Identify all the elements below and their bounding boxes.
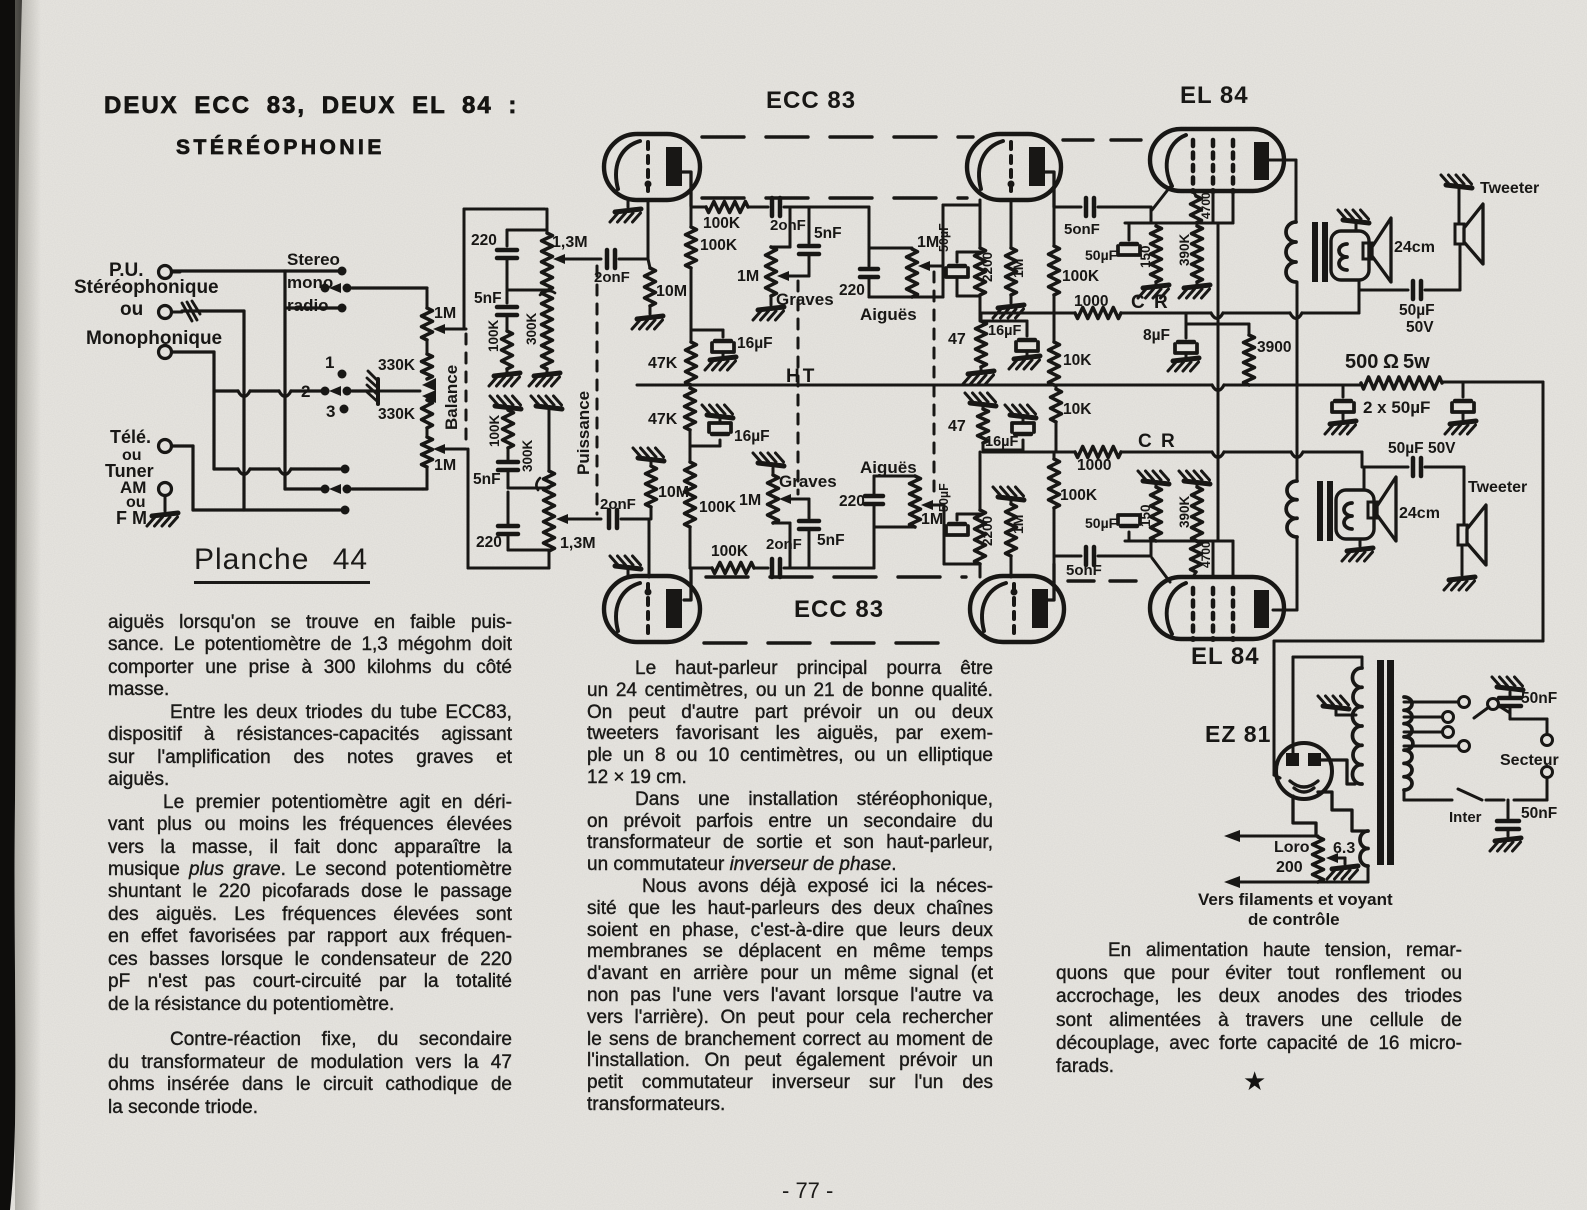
ground speaker lower (1342, 539, 1373, 561)
wire tube4 cathode (979, 564, 982, 577)
node y510 (341, 506, 350, 515)
label EL84 psu (0, 0, 1, 1)
svg-text:5onF: 5onF (1066, 562, 1102, 579)
ground 1.3M upper (529, 369, 560, 386)
potentiometer 1M graves lower (739, 475, 779, 523)
transformer mains winding (1404, 697, 1413, 790)
resistor 2200 upper (975, 248, 996, 295)
ground loro (1327, 866, 1358, 879)
svg-text:50µF: 50µF (937, 483, 951, 512)
wire el84u rail (1125, 222, 1233, 225)
wire B+ bottom (1274, 640, 1543, 643)
aigues gang dashed (933, 272, 936, 500)
svg-text:47K: 47K (648, 355, 678, 372)
wiper arrow aigues upper (918, 261, 943, 271)
svg-text:5nF: 5nF (817, 532, 845, 549)
wire row y391 (215, 391, 371, 397)
node sel1 (338, 370, 347, 379)
dashed envelope bottom row b (704, 641, 950, 644)
label 50nF psu bottom (1521, 805, 1557, 822)
svg-text:Tweeter: Tweeter (1468, 479, 1527, 496)
svg-text:330K: 330K (378, 406, 416, 423)
transformer core lower (1317, 481, 1333, 541)
capacitor 50uF cathode lower (937, 483, 980, 535)
ground 100K lower (490, 396, 521, 409)
svg-text:16µF: 16µF (988, 323, 1021, 339)
wire row y469 (214, 469, 340, 475)
speaker 24cm upper box (1331, 231, 1369, 280)
svg-text:Aiguës: Aiguës (860, 305, 917, 324)
capacitor 50nF psu top (1499, 692, 1521, 712)
svg-text:EZ 81: EZ 81 (1205, 721, 1271, 747)
mains tap 1 (1404, 697, 1470, 708)
capacitor 5nF graves lower (799, 499, 845, 568)
ground graves upper (753, 296, 784, 320)
svg-text:220: 220 (471, 232, 497, 249)
tweeter lower (1458, 505, 1486, 565)
resistor 2200 lower (975, 510, 996, 564)
label AM (120, 478, 146, 497)
resistor 1M grid upper (1006, 248, 1027, 295)
svg-text:1M: 1M (921, 511, 943, 528)
svg-text:EL 84: EL 84 (1191, 643, 1260, 670)
resistor 150 lower (1138, 487, 1162, 541)
capacitor 5nF lower (473, 462, 518, 488)
label 6.3 (1333, 840, 1355, 857)
label Puissance (574, 391, 593, 475)
wire screen vertical (1217, 223, 1220, 541)
resistor 100K tap upper (486, 319, 513, 369)
svg-text:220: 220 (839, 493, 865, 510)
resistor 390K upper (1177, 226, 1203, 282)
ground 390K lower (1179, 471, 1210, 487)
capacitor 20nF input upper (594, 250, 648, 286)
ground 1M grid lower (993, 487, 1024, 504)
svg-text:Stereo: Stereo (287, 250, 340, 269)
wire el84l anode (1273, 537, 1297, 610)
svg-text:1M: 1M (1010, 259, 1026, 278)
svg-text:330K: 330K (378, 357, 416, 374)
wire CR lower right (1121, 452, 1362, 458)
svg-text:24cm: 24cm (1399, 505, 1440, 522)
capacitor 50uF cathode upper (937, 223, 980, 296)
potentiometer Loro 200 (1274, 837, 1324, 882)
transformer core psu (1377, 660, 1394, 865)
wire tube1 cathode (627, 200, 630, 207)
ground tweeter lower (1444, 545, 1475, 590)
svg-text:Loro: Loro (1274, 839, 1310, 856)
ground 50nF psu bottom (1490, 838, 1521, 851)
tube EL84 upper (1150, 129, 1284, 194)
transformer core upper (1312, 222, 1328, 282)
wire tube4 grid (1010, 556, 1013, 577)
resistor 100K plate upper (1049, 207, 1100, 313)
dashed envelope top row b (702, 196, 967, 199)
wire radio stub (287, 306, 338, 309)
graves gang dashed (797, 281, 800, 494)
dashed link ecc4-el84 bottom (1068, 579, 1146, 582)
ground 1.3M lower (531, 396, 562, 471)
wire CR lower left (983, 451, 1075, 454)
label sel 3 (326, 402, 335, 421)
wire bus lower (690, 567, 712, 570)
wire CR upper left (981, 313, 1075, 321)
label de controle (1248, 910, 1340, 929)
node mono pair (321, 283, 352, 293)
label Tweeter upper (1480, 180, 1539, 197)
speaker 24cm lower cone (1368, 477, 1396, 541)
potentiometer 1.3M upper (542, 209, 588, 369)
svg-text:16µF: 16µF (737, 335, 773, 352)
mains tap 4 (1404, 741, 1470, 752)
ground FM terminal (147, 496, 178, 526)
svg-text:5w: 5w (1403, 351, 1430, 373)
node stereo (338, 267, 347, 276)
svg-text:10M: 10M (658, 484, 689, 501)
svg-text:5nF: 5nF (474, 290, 502, 307)
potentiometer 1M aigues lower (874, 476, 943, 528)
node sel3 (340, 405, 349, 414)
wire mains return (1514, 799, 1547, 802)
svg-text:50nF: 50nF (1521, 690, 1557, 707)
wire 16uF tap lower (690, 440, 720, 446)
resistor 47K lower (648, 388, 696, 462)
label Tele. (110, 427, 151, 447)
wire 300K tap low (508, 487, 549, 490)
tube ECC83 triode B (967, 134, 1061, 200)
svg-text:300K: 300K (520, 439, 535, 472)
svg-text:2onF: 2onF (770, 217, 806, 234)
wire B+ right (1442, 382, 1543, 641)
label 50uF 50V lower (1388, 440, 1456, 457)
svg-text:ECC 83: ECC 83 (766, 87, 856, 114)
node sel2 pair (321, 386, 352, 396)
capacitor 16uF lower (709, 423, 770, 445)
ground 1M grid upper (993, 295, 1024, 318)
label sel 1 (325, 353, 334, 372)
svg-text:100K: 100K (486, 319, 501, 352)
transformer HV winding (1352, 657, 1362, 784)
svg-text:100K: 100K (1062, 268, 1100, 285)
svg-text:200: 200 (1276, 859, 1303, 876)
svg-text:220: 220 (476, 534, 502, 551)
wire arrow feed 1 (1224, 830, 1318, 842)
svg-text:2200: 2200 (980, 252, 995, 282)
resistor 100K vert upper (686, 227, 738, 268)
svg-text:Graves: Graves (779, 472, 837, 491)
wiper arrow balance lower (433, 444, 466, 454)
wire 2200 to 47 (979, 295, 982, 321)
node sel pair low (321, 484, 352, 494)
wire row y489 (285, 487, 322, 490)
label 300K upper (524, 291, 555, 345)
label ou 2 (122, 447, 142, 464)
wire 16uF2 tap (981, 321, 1027, 336)
tube EL84 lower (1150, 577, 1284, 642)
wire tube3 cathode (627, 570, 630, 577)
label Graves upper (776, 290, 834, 309)
tube ECC83 triode C (604, 576, 700, 642)
wire 16uF tap upper (691, 330, 723, 337)
ground speaker upper (1338, 210, 1369, 231)
wiper arrow balance upper (433, 324, 466, 334)
ground 47 lower (965, 393, 996, 409)
wire filament left (1293, 796, 1316, 836)
svg-text:2 x 50µF: 2 x 50µF (1363, 398, 1430, 417)
resistor 3900 upper (1244, 324, 1292, 385)
svg-text:1M: 1M (739, 492, 761, 509)
svg-text:3900: 3900 (1257, 339, 1291, 356)
tube ECC83 triode D (970, 576, 1064, 642)
svg-text:100K: 100K (487, 414, 502, 447)
resistor 330K upper (378, 340, 433, 379)
potentiometer 1M graves upper (737, 247, 777, 296)
wire v285 (283, 271, 286, 489)
resistor 10K upper (1049, 313, 1093, 385)
resistor 10K lower (1051, 385, 1093, 452)
label EL84 bottom (1191, 643, 1260, 670)
label Secteur (1500, 752, 1559, 769)
terminal mono input (159, 301, 201, 321)
svg-text:1,3M: 1,3M (552, 234, 588, 251)
capacitor 20nF series lower (766, 536, 869, 577)
resistor 1M grid lower (1006, 504, 1027, 556)
svg-text:Télé.: Télé. (110, 427, 151, 447)
wiper arrow 1.3M lower (556, 514, 601, 524)
speaker 24cm lower box (1336, 490, 1374, 539)
svg-text:50nF: 50nF (1521, 805, 1557, 822)
label 300K lower (520, 439, 540, 490)
balance center tap arrows (370, 378, 436, 403)
terminal input 3 (159, 346, 183, 359)
svg-text:100K: 100K (700, 237, 738, 254)
svg-text:47: 47 (948, 331, 966, 348)
wire anode node upper (1054, 206, 1081, 209)
svg-text:4700: 4700 (1199, 192, 1213, 219)
capacitor 50uF el84 upper (1085, 223, 1140, 263)
svg-text:2onF: 2onF (766, 536, 802, 553)
ground 100K upper (489, 369, 520, 386)
switch Inter (1404, 789, 1504, 800)
wire v944 lower (944, 505, 980, 564)
wire secondary bottom upper (1359, 280, 1408, 313)
wiper arrow graves lower (779, 494, 809, 504)
svg-text:de contrôle: de contrôle (1248, 910, 1340, 929)
ground 8uF upper (1168, 353, 1199, 371)
svg-text:ou: ou (120, 299, 143, 320)
svg-text:Stéréophonique: Stéréophonique (74, 277, 219, 298)
ground 2x50uF right (1445, 421, 1476, 434)
puissance gang dashed link (596, 266, 599, 514)
wiper arrow loro (1326, 853, 1345, 864)
svg-text:10M: 10M (656, 283, 687, 300)
svg-text:Ω: Ω (1383, 351, 1399, 373)
svg-text:ECC 83: ECC 83 (794, 596, 884, 623)
resistor 100K plate lower (1049, 452, 1098, 556)
svg-text:390K: 390K (1177, 233, 1192, 266)
wire tube2 anode (1043, 172, 1054, 207)
resistor 100K series upper (691, 202, 768, 233)
ground 47 upper (963, 367, 994, 384)
heater winding 6.3 (1360, 831, 1368, 866)
wire mono row to balance (352, 286, 427, 289)
ground 390K upper (1179, 282, 1210, 298)
wire tweeter lower (1463, 467, 1466, 525)
resistor 390K lower (1177, 487, 1203, 541)
svg-text:100K: 100K (699, 499, 737, 516)
svg-text:100K: 100K (703, 215, 741, 232)
svg-text:Graves: Graves (776, 290, 834, 309)
wiper arrow graves upper (777, 271, 809, 281)
wire el84u pins (1213, 191, 1233, 223)
ground 150 lower (1138, 471, 1169, 487)
capacitor 50nF coupling upper (1064, 198, 1151, 238)
book gutter black strip (0, 0, 22, 1210)
svg-text:Vers filaments et voyant: Vers filaments et voyant (1198, 890, 1393, 909)
wire v943 upper (943, 205, 980, 297)
svg-text:5nF: 5nF (473, 471, 501, 488)
transformer primary upper (1286, 222, 1296, 282)
label 50uF 50V upper (1399, 302, 1435, 336)
capacitor 50uF el84 lower (1085, 515, 1140, 541)
dashed envelope top row a (702, 135, 973, 138)
label CR upper (1131, 292, 1170, 313)
wire 2200 top lower (979, 452, 982, 510)
ground tweeter upper (1441, 175, 1472, 224)
wiper arrow 1.3M upper (553, 254, 601, 264)
label radio (287, 296, 329, 315)
ground tube3 cathode (610, 556, 641, 569)
label vers filaments (1198, 890, 1393, 909)
svg-text:300K: 300K (524, 312, 539, 345)
capacitor 2x50uF left (1332, 385, 1354, 419)
label EZ81 (1205, 721, 1271, 747)
label ECC83 bottom (794, 596, 884, 623)
wire 220 bottom upper (869, 277, 943, 297)
wire 220 stub upper (868, 207, 871, 266)
potentiometer 1M balance lower (422, 437, 457, 488)
resistor 47 upper (948, 321, 987, 367)
label 50nF psu top (1521, 690, 1557, 707)
label sel 2 (301, 382, 310, 401)
label Stereophonique (74, 277, 219, 298)
svg-text:5nF: 5nF (814, 225, 842, 242)
resistor 500ohm 5W (1345, 351, 1442, 389)
label Balance (442, 365, 461, 430)
capacitor 5nF upper (474, 290, 517, 331)
wire aigues top lower (874, 475, 915, 478)
svg-text:1M: 1M (434, 457, 456, 474)
wire v214 (212, 352, 215, 469)
wire tube4 anode (1046, 564, 1054, 600)
svg-text:radio: radio (287, 296, 329, 315)
mains tap 2 (1404, 712, 1454, 723)
potentiometer 1M balance upper (422, 290, 457, 340)
resistor 4700 upper (1191, 191, 1214, 223)
resistor 10M lower (646, 462, 690, 519)
wiper arrow aigues lower (921, 500, 944, 510)
svg-text:500: 500 (1345, 351, 1378, 373)
svg-text:50µF: 50µF (937, 223, 951, 252)
svg-text:8µF: 8µF (1143, 327, 1170, 344)
svg-text:1: 1 (325, 353, 334, 372)
capacitor 50nF coupling lower (1066, 547, 1151, 579)
capacitor 16uF second lower (985, 423, 1034, 450)
scan noise texture (0, 0, 1, 1)
label ou 3 (126, 494, 146, 511)
label Aigues lower (860, 458, 917, 477)
wire anode node lower (1054, 556, 1081, 564)
label Inter (1449, 809, 1482, 826)
capacitor 20nF input lower (600, 496, 649, 528)
ground 10M lower (633, 448, 664, 461)
terminal Secteur 2 (1542, 767, 1553, 801)
terminal P.U. input (159, 266, 181, 279)
capacitor 220 tone upper (839, 269, 878, 299)
wire el84u grid (1151, 187, 1170, 223)
label FM (116, 508, 147, 528)
wire 8uF tap upper (1186, 313, 1249, 338)
wire 5nF down lower (773, 523, 790, 568)
resistor 150 upper (1138, 226, 1162, 282)
resistor 100K series lower (711, 543, 768, 574)
svg-text:1M: 1M (917, 234, 939, 251)
svg-text:F M: F M (116, 508, 147, 528)
svg-text:3: 3 (326, 402, 335, 421)
speaker 24cm upper cone (1363, 218, 1391, 282)
svg-text:1000: 1000 (1074, 293, 1108, 310)
svg-text:Puissance: Puissance (574, 391, 593, 475)
svg-text:47: 47 (948, 418, 966, 435)
capacitor 8uF upper (1143, 327, 1197, 353)
svg-text:Monophonique: Monophonique (86, 328, 222, 349)
wire mains node A (1499, 706, 1547, 719)
svg-text:10K: 10K (1063, 352, 1092, 369)
mains tap 3 (1404, 727, 1454, 738)
svg-text:220: 220 (839, 282, 865, 299)
wire CR upper right (1121, 313, 1359, 319)
label Tweeter lower (1468, 479, 1527, 496)
wire box inner top (507, 230, 547, 246)
wire 5nF up (771, 207, 790, 247)
transformer primary lower (1286, 458, 1297, 537)
label Stereo (287, 250, 340, 269)
wire EZ81 anode left (1293, 657, 1362, 753)
wire HT bus (637, 385, 1360, 391)
capacitor 16uF second upper (988, 323, 1038, 351)
wire 220 bottom stub low (508, 534, 549, 550)
wire tweeter upper (1459, 246, 1462, 290)
wire EZ81 anode right (1321, 760, 1355, 784)
potentiometer 1.3M lower (544, 471, 596, 568)
wire box top (464, 209, 545, 329)
svg-text:100K: 100K (711, 543, 749, 560)
wire tube2 cathode (979, 200, 982, 248)
label 24cm upper (1394, 239, 1435, 256)
wire secondary top lower (1362, 452, 1408, 490)
wire box bottom low (468, 449, 549, 568)
wire el84u anode (1269, 160, 1296, 222)
ground graves lower (753, 453, 784, 475)
selector arm (1474, 699, 1499, 719)
terminal Tele/Tuner (159, 440, 183, 453)
HV center tap (1318, 696, 1356, 715)
ground 2x50uF left (1325, 421, 1356, 434)
wire EZ81 B+ feed (1274, 641, 1280, 778)
svg-text:50V: 50V (1406, 319, 1434, 336)
terminal FM (159, 483, 172, 496)
resistor 4700 lower (1191, 541, 1214, 577)
